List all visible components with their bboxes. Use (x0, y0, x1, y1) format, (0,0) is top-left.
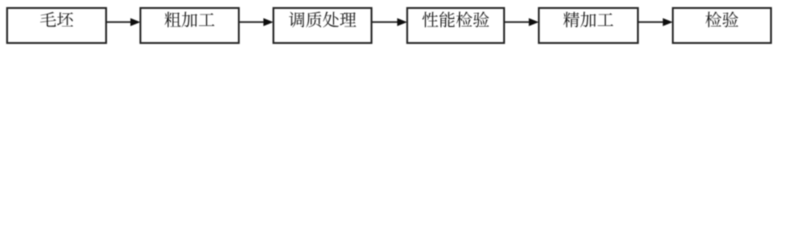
arrow connector 5->6 (638, 18, 673, 26)
arrow connector 2->3 (239, 18, 274, 26)
label char 检 (705, 12, 721, 28)
label char 粗 (165, 12, 181, 28)
label char 精 (563, 12, 579, 28)
label char 坯 (57, 12, 73, 26)
label char 检 (456, 12, 472, 28)
label char 性 (422, 12, 438, 28)
label char 验 (473, 12, 489, 28)
label char 加 (580, 12, 596, 27)
process box 2: rough machining 粗加工 (140, 8, 238, 43)
process box 5: finish machining 精加工 (539, 8, 638, 43)
arrow connector 3->4 (372, 18, 408, 26)
process box 4: performance test 性能检验 (407, 8, 504, 43)
arrow connector 1->2 (106, 18, 140, 26)
label char 毛 (40, 12, 56, 27)
label char 理 (340, 12, 356, 26)
process box 3: quench-temper 调质处理 (273, 8, 371, 43)
label char 验 (723, 12, 739, 28)
label char 质 (306, 12, 321, 28)
label char 加 (182, 12, 198, 27)
label char 工 (598, 13, 614, 26)
process flowchart (0, 0, 786, 51)
label char 处 (323, 12, 339, 28)
process box 1: blank 毛坯 (7, 8, 106, 43)
label char 调 (289, 12, 305, 27)
label char 工 (199, 13, 215, 26)
label char 能 (439, 12, 454, 28)
arrow connector 4->5 (504, 18, 539, 26)
process box 6: inspection 检验 (673, 8, 771, 43)
